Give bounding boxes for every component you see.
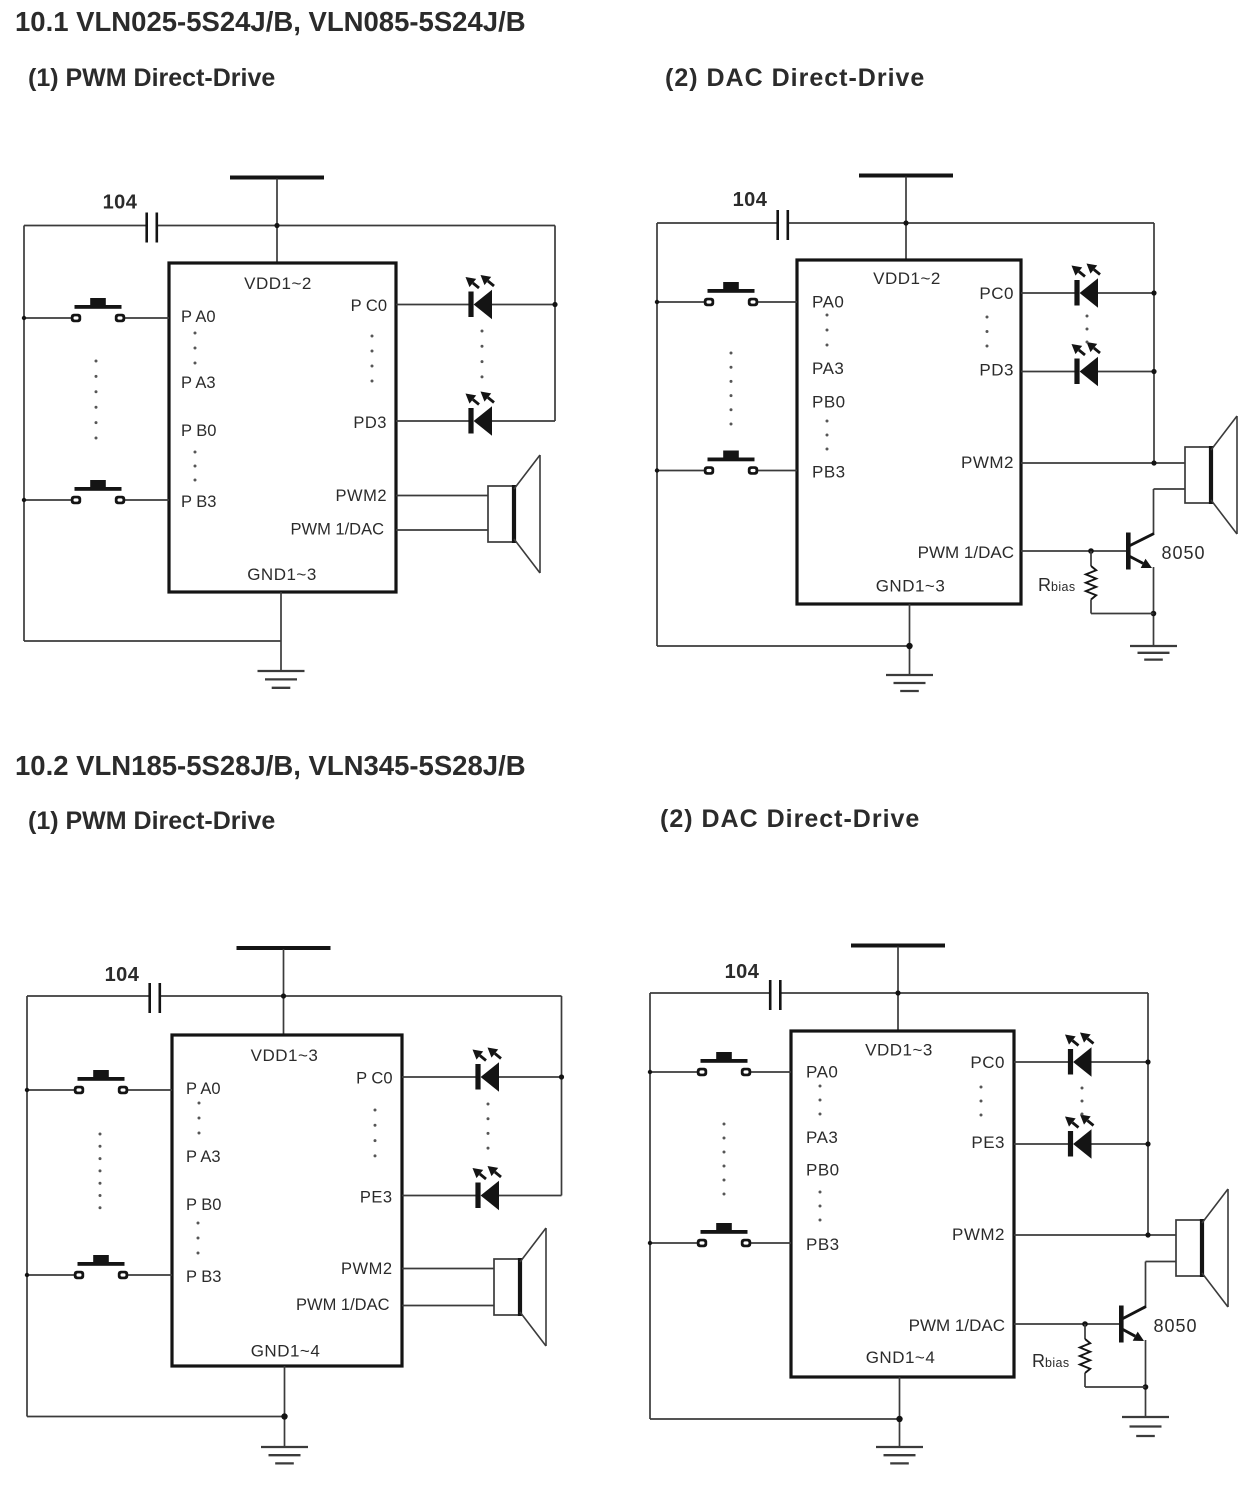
ellipsis PC-PD dots (10.1 PWM)	[371, 335, 374, 383]
wire rail to switch S2 (10.2 PWM)	[27, 1274, 74, 1276]
speaker LS (10.2 PWM)	[494, 1228, 546, 1346]
push button S1 (10.1 PWM)	[71, 298, 125, 322]
wire collector riser (10.2 DAC)	[1145, 1262, 1147, 1308]
ellipsis LED chain dots (10.1 PWM)	[481, 330, 484, 379]
ellipsis PB dots (10.1 PWM)	[194, 451, 197, 482]
wire emitter to ground (10.1 DAC)	[1153, 567, 1155, 646]
svg-text:(1) PWM Direct-Drive: (1) PWM Direct-Drive	[28, 807, 275, 835]
VDD power bar (10.2 PWM)	[237, 946, 331, 950]
push button S1 (10.2 PWM)	[74, 1070, 128, 1094]
capacitor 104 bypass (10.2 DAC)	[770, 980, 780, 1010]
svg-text:VDD1~2: VDD1~2	[873, 269, 941, 288]
wire LED2 to rail (10.2 PWM)	[499, 1195, 562, 1197]
VDD power bar (10.2 DAC)	[851, 944, 945, 948]
wire bottom ground return (10.2 DAC)	[650, 1418, 900, 1420]
capacitor 104 bypass (10.1 DAC)	[778, 210, 788, 240]
svg-text:P A0: P A0	[186, 1080, 221, 1098]
svg-text:P A3: P A3	[186, 1148, 221, 1166]
svg-text:VDD1~3: VDD1~3	[251, 1046, 319, 1065]
svg-text:GND1~4: GND1~4	[866, 1348, 936, 1367]
wire VDD stem (10.1 DAC)	[905, 177, 907, 261]
wire rail to switch S2 (10.2 DAC)	[650, 1242, 697, 1244]
wire base junction down (10.2 DAC)	[1084, 1324, 1086, 1339]
wire PWM2 to speaker (10.1 DAC)	[1021, 462, 1185, 464]
wire rail to switch S1 (10.2 DAC)	[650, 1071, 697, 1073]
svg-text:P C0: P C0	[351, 297, 387, 315]
wire rail to switch S1 (10.2 PWM)	[27, 1089, 74, 1091]
junction rail-PWM2 (10.2 DAC)	[1145, 1232, 1150, 1237]
wire GND stem (10.2 PWM)	[284, 1366, 286, 1447]
wire VDD top rail right segment (10.1 DAC)	[789, 222, 1154, 224]
junction LED1-rail (10.2 DAC)	[1145, 1059, 1150, 1064]
svg-text:PWM2: PWM2	[336, 487, 388, 505]
wire rail to switch S1 (10.1 DAC)	[657, 301, 704, 303]
junction LED1-rail (10.2 PWM)	[559, 1074, 564, 1079]
wire right LED supply rail (10.1 DAC)	[1153, 223, 1155, 463]
wire bottom ground return (10.1 DAC)	[657, 645, 910, 647]
junction base-Rbias (10.1 DAC)	[1088, 548, 1094, 554]
wire LED1 to rail (10.1 DAC)	[1098, 292, 1154, 294]
junction ground return (10.2 PWM)	[281, 1413, 287, 1419]
resistor Rbias (10.2 DAC)	[1080, 1339, 1090, 1373]
ground symbol (10.1 PWM)	[258, 671, 305, 688]
svg-text:(1) PWM Direct-Drive: (1) PWM Direct-Drive	[28, 64, 275, 92]
svg-text:(2) DAC Direct-Drive: (2) DAC Direct-Drive	[660, 805, 920, 833]
svg-text:PWM2: PWM2	[341, 1260, 393, 1278]
ground symbol transistor (10.2 DAC)	[1122, 1417, 1169, 1436]
svg-text:PA3: PA3	[812, 359, 844, 378]
svg-text:10.2 VLN185-5S28J/B, VLN345-5S: 10.2 VLN185-5S28J/B, VLN345-5S28J/B	[15, 750, 526, 781]
wire PC0 to LED1 (10.1 DAC)	[1021, 292, 1075, 294]
svg-text:PA3: PA3	[806, 1128, 838, 1147]
junction rail-S1 (10.2 PWM)	[25, 1088, 29, 1092]
wire LED2 to rail (10.1 DAC)	[1098, 371, 1154, 373]
ellipsis left rail dots (10.2 DAC)	[723, 1123, 726, 1196]
wire PD3 to LED2 (10.1 DAC)	[1021, 371, 1075, 373]
wire PWM1/DAC to speaker (10.2 PWM)	[402, 1305, 494, 1307]
speaker LS (10.1 DAC)	[1185, 416, 1237, 534]
wire LED1 to rail (10.2 DAC)	[1092, 1061, 1149, 1063]
wire right LED supply rail (10.2 DAC)	[1147, 993, 1149, 1235]
wire VDD top rail left segment (10.2 PWM)	[27, 995, 149, 997]
ground symbol (10.2 PWM)	[261, 1447, 308, 1463]
junction rail-S2 (10.2 PWM)	[25, 1273, 29, 1277]
wire VDD top rail left segment (10.2 DAC)	[650, 992, 769, 994]
wire switch S2 to PB3 (10.2 PWM)	[128, 1274, 172, 1276]
LED D2 on PD3 (10.1 DAC)	[1072, 342, 1101, 386]
svg-text:104: 104	[103, 192, 138, 214]
svg-text:PE3: PE3	[971, 1133, 1005, 1152]
capacitor 104 bypass (10.1 PWM)	[147, 213, 157, 243]
VDD power bar (10.1 PWM)	[230, 176, 324, 180]
ground symbol (10.1 DAC)	[886, 675, 933, 691]
svg-text:GND1~4: GND1~4	[251, 1342, 321, 1361]
wire VDD top rail right segment (10.2 DAC)	[782, 992, 1149, 994]
wire bottom ground return (10.2 PWM)	[27, 1416, 285, 1418]
wire VDD top rail right segment (10.1 PWM)	[158, 225, 555, 227]
ellipsis left rail dots (10.1 PWM)	[95, 360, 98, 440]
wire switch S2 to PB3 (10.1 DAC)	[758, 470, 797, 472]
junction VDD rail (10.1 PWM)	[274, 223, 279, 228]
wire PC0 to LED1 (10.2 PWM)	[402, 1076, 476, 1078]
wire Rbias lower lead (10.1 DAC)	[1090, 600, 1092, 614]
svg-text:P B0: P B0	[186, 1196, 221, 1214]
wire rail to switch S2 (10.1 PWM)	[24, 499, 71, 501]
svg-text:GND1~3: GND1~3	[876, 577, 946, 596]
ellipsis PC-PD dots (10.2 PWM)	[374, 1109, 377, 1158]
IC U2 body (10.2 DAC)	[791, 1031, 1014, 1377]
wire Rbias to emitter (10.1 DAC)	[1091, 613, 1154, 615]
ellipsis left rail dots (10.2 PWM)	[99, 1133, 102, 1210]
svg-text:PWM 1/DAC: PWM 1/DAC	[290, 521, 384, 539]
ellipsis PC-PD dots (10.1 DAC)	[986, 316, 989, 348]
svg-text:PWM 1/DAC: PWM 1/DAC	[296, 1296, 390, 1314]
wire GND stem (10.1 DAC)	[909, 604, 911, 675]
junction VDD rail (10.2 PWM)	[281, 993, 286, 998]
ellipsis PA dots (10.2 DAC)	[819, 1085, 822, 1116]
push button S2 (10.2 PWM)	[74, 1255, 128, 1279]
ellipsis LED chain dots (10.1 DAC)	[1086, 315, 1089, 344]
push button S2 (10.1 DAC)	[704, 451, 758, 475]
wire switch S1 to PA0 (10.2 PWM)	[128, 1089, 172, 1091]
ellipsis LED chain dots (10.2 PWM)	[487, 1103, 490, 1150]
wire PC0 to LED1 (10.1 PWM)	[396, 304, 469, 306]
svg-text:PB0: PB0	[812, 393, 846, 412]
wire PE3 to LED2 (10.2 PWM)	[402, 1195, 476, 1197]
wire rail to switch S1 (10.1 PWM)	[24, 317, 71, 319]
wire PC0 to LED1 (10.2 DAC)	[1014, 1061, 1069, 1063]
svg-text:P A3: P A3	[181, 374, 216, 392]
wire PWM1/DAC to base (10.2 DAC)	[1014, 1323, 1119, 1325]
svg-text:PWM 1/DAC: PWM 1/DAC	[909, 1316, 1005, 1335]
junction emitter-Rbias (10.1 DAC)	[1151, 611, 1157, 617]
junction rail-S2 (10.1 PWM)	[22, 498, 26, 502]
wire LED2 to rail (10.1 PWM)	[492, 420, 555, 422]
svg-text:VDD1~2: VDD1~2	[244, 274, 312, 293]
wire collector riser (10.1 DAC)	[1153, 489, 1155, 534]
ellipsis PC-PD dots (10.2 DAC)	[980, 1086, 983, 1117]
ground symbol (10.2 DAC)	[876, 1447, 923, 1463]
svg-text:PC0: PC0	[979, 284, 1014, 303]
wire PWM1/DAC to base (10.1 DAC)	[1021, 550, 1126, 552]
svg-text:P B0: P B0	[181, 422, 216, 440]
ellipsis PB dots (10.1 DAC)	[826, 420, 829, 451]
svg-text:8050: 8050	[1162, 543, 1206, 563]
junction ground return (10.1 DAC)	[906, 643, 912, 649]
wire switch S2 to PB3 (10.2 DAC)	[751, 1242, 791, 1244]
ellipsis LED chain dots (10.2 DAC)	[1081, 1087, 1084, 1116]
wire emitter to ground (10.2 DAC)	[1145, 1340, 1147, 1417]
wire PWM2 to speaker (10.1 PWM)	[396, 495, 488, 497]
svg-text:10.1 VLN025-5S24J/B, VLN085-5S: 10.1 VLN025-5S24J/B, VLN085-5S24J/B	[15, 6, 526, 37]
resistor Rbias (10.1 DAC)	[1086, 566, 1096, 600]
wire left supply rail (10.2 PWM)	[26, 996, 28, 1417]
push button S2 (10.2 DAC)	[697, 1223, 751, 1247]
junction LED2-rail (10.2 DAC)	[1145, 1141, 1150, 1146]
wire LED2 to rail (10.2 DAC)	[1092, 1143, 1149, 1145]
svg-text:PWM2: PWM2	[961, 453, 1014, 472]
junction rail-PWM2 (10.1 DAC)	[1151, 460, 1156, 465]
svg-text:PB0: PB0	[806, 1161, 840, 1180]
wire left supply rail (10.1 PWM)	[23, 226, 25, 642]
wire switch S1 to PA0 (10.2 DAC)	[751, 1071, 791, 1073]
junction rail-S2 (10.1 DAC)	[655, 468, 659, 472]
svg-text:104: 104	[725, 961, 760, 983]
svg-text:P C0: P C0	[356, 1070, 392, 1088]
wire left supply rail (10.1 DAC)	[656, 223, 658, 646]
IC U2 body (10.1 DAC)	[797, 260, 1021, 604]
wire speaker return horizontal (10.1 DAC)	[1154, 488, 1186, 490]
VDD power bar (10.1 DAC)	[859, 174, 953, 178]
junction ground return (10.2 DAC)	[896, 1416, 902, 1422]
wire right LED supply rail (10.1 PWM)	[554, 226, 556, 422]
wire VDD stem (10.1 PWM)	[276, 179, 278, 264]
wire switch S1 to PA0 (10.1 DAC)	[758, 301, 797, 303]
wire LED1 to rail (10.1 PWM)	[492, 304, 555, 306]
junction VDD rail (10.2 DAC)	[895, 990, 900, 995]
IC U1 body (10.1 PWM)	[169, 263, 396, 592]
svg-text:PC0: PC0	[970, 1053, 1005, 1072]
wire PWM1/DAC to speaker (10.1 PWM)	[396, 529, 488, 531]
ellipsis PA dots (10.1 PWM)	[194, 332, 197, 365]
IC U1 body (10.2 PWM)	[172, 1035, 402, 1366]
svg-text:P A0: P A0	[181, 308, 216, 326]
wire GND stem (10.1 PWM)	[280, 592, 282, 671]
junction emitter-Rbias (10.2 DAC)	[1143, 1384, 1149, 1390]
svg-text:(2) DAC Direct-Drive: (2) DAC Direct-Drive	[665, 64, 925, 92]
junction LED1-rail (10.1 DAC)	[1151, 290, 1156, 295]
ellipsis left rail dots (10.1 DAC)	[730, 352, 733, 426]
wire switch S2 to PB3 (10.1 PWM)	[125, 499, 169, 501]
wire bottom ground return (10.1 PWM)	[24, 640, 281, 642]
ellipsis PB dots (10.2 PWM)	[197, 1222, 200, 1255]
svg-text:PWM 1/DAC: PWM 1/DAC	[918, 543, 1014, 562]
junction rail-S2 (10.2 DAC)	[648, 1241, 652, 1245]
junction LED1-rail (10.1 PWM)	[552, 302, 557, 307]
wire VDD top rail right segment (10.2 PWM)	[161, 995, 562, 997]
wire switch S1 to PA0 (10.1 PWM)	[125, 317, 169, 319]
push button S1 (10.1 DAC)	[704, 282, 758, 306]
LED D1 on PC0 (10.1 PWM)	[466, 275, 495, 319]
wire speaker return horizontal (10.2 DAC)	[1146, 1261, 1177, 1263]
svg-text:PD3: PD3	[979, 361, 1014, 380]
wire LED1 to rail (10.2 PWM)	[499, 1076, 562, 1078]
speaker LS (10.2 DAC)	[1176, 1189, 1228, 1307]
wire right LED supply rail (10.2 PWM)	[561, 996, 563, 1196]
junction rail-S1 (10.1 DAC)	[655, 300, 659, 304]
svg-text:PA0: PA0	[806, 1063, 838, 1082]
junction LED2-rail (10.1 DAC)	[1151, 369, 1156, 374]
wire base junction down (10.1 DAC)	[1090, 551, 1092, 566]
wire left supply rail (10.2 DAC)	[649, 993, 651, 1419]
LED D2 on PE3 (10.2 PWM)	[473, 1166, 502, 1210]
junction rail-S1 (10.1 PWM)	[22, 316, 26, 320]
svg-text:PD3: PD3	[353, 414, 387, 432]
svg-text:104: 104	[733, 189, 768, 211]
wire PWM2 to speaker (10.2 PWM)	[402, 1268, 494, 1270]
svg-text:PWM2: PWM2	[952, 1225, 1005, 1244]
wire VDD stem (10.2 PWM)	[283, 949, 285, 1035]
wire Rbias to emitter (10.2 DAC)	[1085, 1386, 1146, 1388]
svg-text:P B3: P B3	[181, 493, 216, 511]
svg-text:PB3: PB3	[812, 463, 846, 482]
ground symbol transistor (10.1 DAC)	[1130, 646, 1177, 660]
wire VDD top rail left segment (10.1 DAC)	[657, 222, 777, 224]
svg-text:P B3: P B3	[186, 1268, 221, 1286]
svg-text:PA0: PA0	[812, 293, 844, 312]
wire rail to switch S2 (10.1 DAC)	[657, 470, 704, 472]
wire Rbias lower lead (10.2 DAC)	[1084, 1373, 1086, 1387]
svg-text:GND1~3: GND1~3	[247, 565, 317, 584]
svg-text:VDD1~3: VDD1~3	[865, 1041, 933, 1060]
transistor Q1 8050 (10.2 DAC)	[1119, 1306, 1146, 1343]
svg-text:PB3: PB3	[806, 1235, 840, 1254]
push button S2 (10.1 PWM)	[71, 480, 125, 504]
wire GND stem (10.2 DAC)	[899, 1377, 901, 1447]
push button S1 (10.2 DAC)	[697, 1052, 751, 1076]
junction base-Rbias (10.2 DAC)	[1082, 1321, 1088, 1327]
wire PE3 to LED2 (10.2 DAC)	[1014, 1143, 1069, 1145]
wire VDD stem (10.2 DAC)	[897, 947, 899, 1032]
wire PD3 to LED2 (10.1 PWM)	[396, 420, 469, 422]
wire PWM2 to speaker (10.2 DAC)	[1014, 1234, 1176, 1236]
LED D1 on PC0 (10.2 PWM)	[473, 1048, 502, 1092]
capacitor 104 bypass (10.2 PWM)	[150, 983, 160, 1013]
ellipsis PB dots (10.2 DAC)	[819, 1191, 822, 1222]
svg-text:PE3: PE3	[360, 1189, 393, 1207]
LED D1 on PC0 (10.1 DAC)	[1072, 264, 1101, 308]
LED D1 on PC0 (10.2 DAC)	[1065, 1033, 1094, 1077]
LED D2 on PD3 (10.1 PWM)	[466, 392, 495, 436]
LED D2 on PE3 (10.2 DAC)	[1065, 1115, 1094, 1159]
wire VDD top rail left segment (10.1 PWM)	[24, 225, 146, 227]
ellipsis PA dots (10.1 DAC)	[826, 314, 829, 347]
speaker LS (10.1 PWM)	[488, 455, 540, 573]
transistor Q1 8050 (10.1 DAC)	[1126, 533, 1154, 570]
svg-text:104: 104	[105, 964, 140, 986]
junction VDD rail (10.1 DAC)	[903, 220, 908, 225]
ellipsis PA dots (10.2 PWM)	[198, 1102, 201, 1135]
junction rail-S1 (10.2 DAC)	[648, 1070, 652, 1074]
svg-text:8050: 8050	[1154, 1316, 1198, 1336]
